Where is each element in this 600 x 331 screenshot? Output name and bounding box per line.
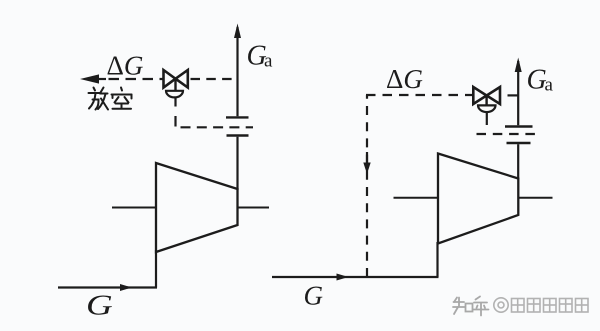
wire: dashed from valve to discharge pipe (left) [191,78,238,80]
放 left part 方 [94,88,96,91]
放 right part 攵 [101,88,104,93]
valve V2 actuator dome [478,105,496,112]
乎 [476,297,481,300]
空 eight [115,97,119,103]
wire: signal dashed horizontal through sensing break (right) [477,133,541,135]
空 gong [116,103,129,105]
label G inlet (left) [86,291,113,322]
wire: signal dash vertical [174,116,176,127]
svg-text:ΔG: ΔG [107,51,144,81]
wire: shaft stub left (left diagram) [112,207,157,209]
label Ga (left) [247,40,274,71]
svg-text:ΔG: ΔG [386,64,423,94]
label deltaG (right) [386,64,423,94]
知 [454,298,457,303]
arrow vent left [80,74,99,83]
svg-text:a: a [264,51,273,72]
compressor body (right trapezoid) [438,154,518,244]
wire: vent dashed line to valve [109,78,164,80]
control valve V1 bowtie (left) [164,70,176,88]
capacitor-like sensing break: bottom plate (left) [227,134,249,136]
arrow inlet flow (left) [120,284,132,291]
wire: discharge pipe upper segment (right) [517,61,519,125]
wire: suction riser (right) [436,242,438,277]
wire: shaft stub left (right diagram) [394,197,440,199]
capacitor-like sensing break: top plate (right) [505,125,533,127]
capacitor-like sensing break: bottom plate (right) [507,142,531,144]
wire: shaft stub right (left diagram) [238,207,269,209]
wire: recycle dashed vertical [366,95,368,277]
label deltaG (left) [107,51,144,81]
label Ga (right) [527,64,554,95]
capacitor-like sensing break: top plate (left) [226,116,249,118]
arrow up Ga (right) [515,58,522,73]
compressor body (left trapezoid) [156,163,238,252]
arrow inlet flow (right) [337,274,349,281]
svg-text:a: a [545,75,554,96]
wire: inlet line (left) [58,286,157,288]
wire: discharge pipe lower segment (right) [517,144,519,179]
wire: discharge pipe lower segment (left) [236,137,238,190]
wire: suction riser (left) [155,250,157,288]
wire: inlet line (right) [272,276,439,278]
valve V1 actuator dome [166,91,183,98]
wire: valve V2 signal stem down [486,112,488,125]
wire: valve V2 outlet stub to pipe [508,94,520,96]
wire: discharge pipe upper segment (left) [236,27,238,116]
valve V2 stem [485,96,487,106]
control valve V2 bowtie (right) [473,87,486,104]
空 roof [121,88,122,91]
wire: valve signal stem down [174,97,176,106]
arrow down on recycle line [366,152,368,166]
wire: recycle dashed horizontal to valve [366,94,473,96]
svg-text:G: G [304,281,324,311]
svg-text:G: G [86,291,113,322]
wire: signal dashed horizontal to sensing break (left) [181,126,254,128]
label 放空 (vent, drawn strokes) [89,88,132,110]
wire: vent solid tail [97,78,106,80]
watermark username blocks [494,298,508,312]
arrow up Ga (left) [234,24,241,39]
valve V1 stem [174,79,176,91]
watermark zhihu [453,297,489,316]
wire: shaft stub right (right diagram) [519,197,553,199]
